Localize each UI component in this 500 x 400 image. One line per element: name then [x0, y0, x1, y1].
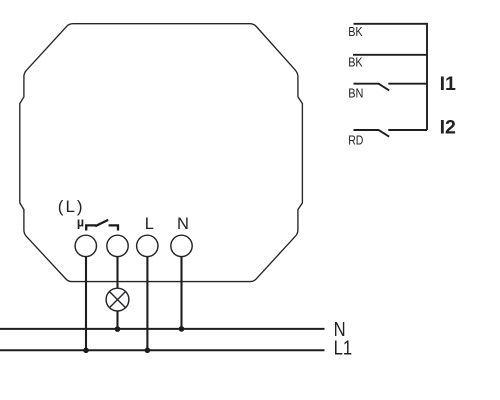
label input I2 — [440, 117, 456, 139]
wire BK (top) — [354, 23, 428, 25]
svg-text:BN: BN — [348, 86, 363, 100]
junction lamp-wire / N — [115, 326, 121, 332]
label N — [177, 215, 189, 233]
junction N-wire / N — [179, 326, 185, 332]
wire lamp terminal to lamp — [116, 257, 118, 289]
label BN — [348, 86, 363, 100]
wire terminal L to L1 bus — [146, 257, 148, 351]
terminal L — [137, 235, 158, 256]
label net L1 — [334, 338, 353, 360]
svg-text:L: L — [145, 215, 154, 233]
svg-text:RD: RD — [348, 134, 363, 148]
label (L) — [58, 197, 85, 216]
label net N — [334, 319, 346, 341]
label BK (top) — [348, 25, 363, 39]
junction (L)-wire / L1 — [83, 348, 89, 354]
wire BN right segment — [388, 83, 427, 85]
wire RD left segment — [354, 129, 380, 131]
terminal (L) — [75, 235, 96, 256]
net N bus line — [0, 328, 325, 330]
wire terminal (L) to L1 bus — [85, 257, 87, 351]
label μ — [77, 215, 84, 229]
svg-text:(L): (L) — [58, 197, 85, 216]
wire RD right segment — [388, 129, 427, 131]
svg-text:L1: L1 — [334, 338, 353, 360]
label BK (second) — [348, 56, 363, 70]
net L1 bus line — [0, 349, 325, 351]
wire BK (second) — [353, 54, 427, 56]
switch blade RD — [379, 130, 390, 137]
svg-text:BK: BK — [348, 56, 363, 70]
bus vertical joining BK/BK/BN/RD — [426, 23, 428, 130]
wire BN left segment — [354, 83, 380, 85]
lamp E1 — [106, 288, 129, 311]
switch blade BN — [379, 84, 390, 91]
label input I1 — [440, 73, 456, 95]
svg-text:N: N — [177, 215, 189, 233]
label RD — [348, 134, 363, 148]
terminal N — [171, 235, 192, 256]
wire terminal N to N bus — [180, 257, 182, 329]
wire lamp to N bus — [116, 311, 118, 329]
terminal lamp output — [107, 235, 128, 256]
device outline (flush-mount insert housing) — [20, 24, 303, 282]
svg-text:µ: µ — [77, 215, 84, 229]
svg-text:BK: BK — [348, 25, 363, 39]
relay contact (mu) between terminals 1 and 2 — [86, 220, 118, 231]
svg-text:I2: I2 — [440, 117, 456, 139]
svg-text:I1: I1 — [440, 73, 456, 95]
label L — [145, 215, 154, 233]
junction L-wire / L1 — [145, 348, 151, 354]
